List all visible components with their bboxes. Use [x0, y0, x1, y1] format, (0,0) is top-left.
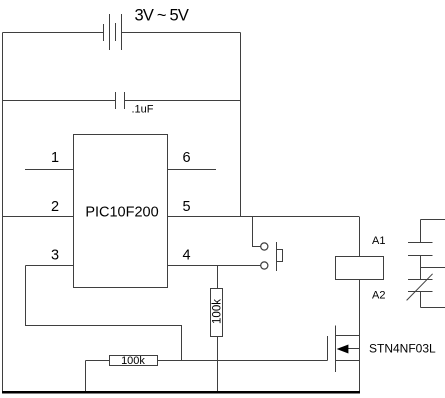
svg-text:STN4NF03L: STN4NF03L — [369, 342, 436, 356]
svg-text:5: 5 — [182, 199, 190, 215]
svg-text:100k: 100k — [121, 355, 145, 367]
svg-text:1: 1 — [51, 150, 59, 166]
svg-text:100k: 100k — [211, 299, 223, 324]
svg-text:A1: A1 — [372, 235, 385, 247]
svg-text:.1uF: .1uF — [132, 104, 154, 116]
svg-text:2: 2 — [51, 199, 59, 215]
svg-text:4: 4 — [182, 248, 190, 264]
svg-text:3: 3 — [51, 248, 59, 264]
svg-text:3V ~ 5V: 3V ~ 5V — [135, 7, 189, 25]
svg-text:6: 6 — [182, 150, 190, 166]
svg-text:PIC10F200: PIC10F200 — [85, 205, 158, 221]
svg-text:A2: A2 — [372, 290, 385, 302]
